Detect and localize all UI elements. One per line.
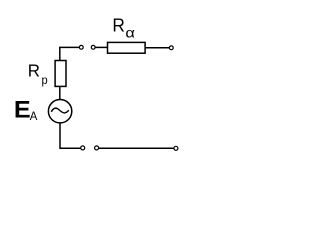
svg-text:R: R <box>112 14 125 35</box>
wire source down to bottom corner and right to terminal <box>60 123 81 148</box>
terminal T4 (bottom gap left) <box>81 146 85 150</box>
svg-text:A: A <box>30 109 38 123</box>
terminal T2 (top gap right) <box>91 45 95 49</box>
resistor Ra body <box>108 42 146 53</box>
wire Ra to T3 <box>145 47 169 49</box>
svg-text:α: α <box>125 26 135 41</box>
terminal T6 (bottom right) <box>174 146 178 150</box>
terminal T1 (top gap left) <box>79 45 83 49</box>
wire T5 to T6 <box>99 147 174 149</box>
wire top-left corner from Rp up and right to terminal <box>60 47 80 60</box>
terminal T5 (bottom gap right) <box>95 146 99 150</box>
AC source sine wave <box>51 108 69 113</box>
AC source EA circle <box>48 100 71 123</box>
resistor Rp body <box>55 61 66 87</box>
wire Rp to source <box>59 86 61 99</box>
terminal T3 (top right) <box>169 46 173 50</box>
svg-text:E: E <box>14 97 31 124</box>
wire T2 to Ra <box>95 46 107 48</box>
svg-text:p: p <box>42 73 48 87</box>
svg-text:R: R <box>28 61 40 81</box>
